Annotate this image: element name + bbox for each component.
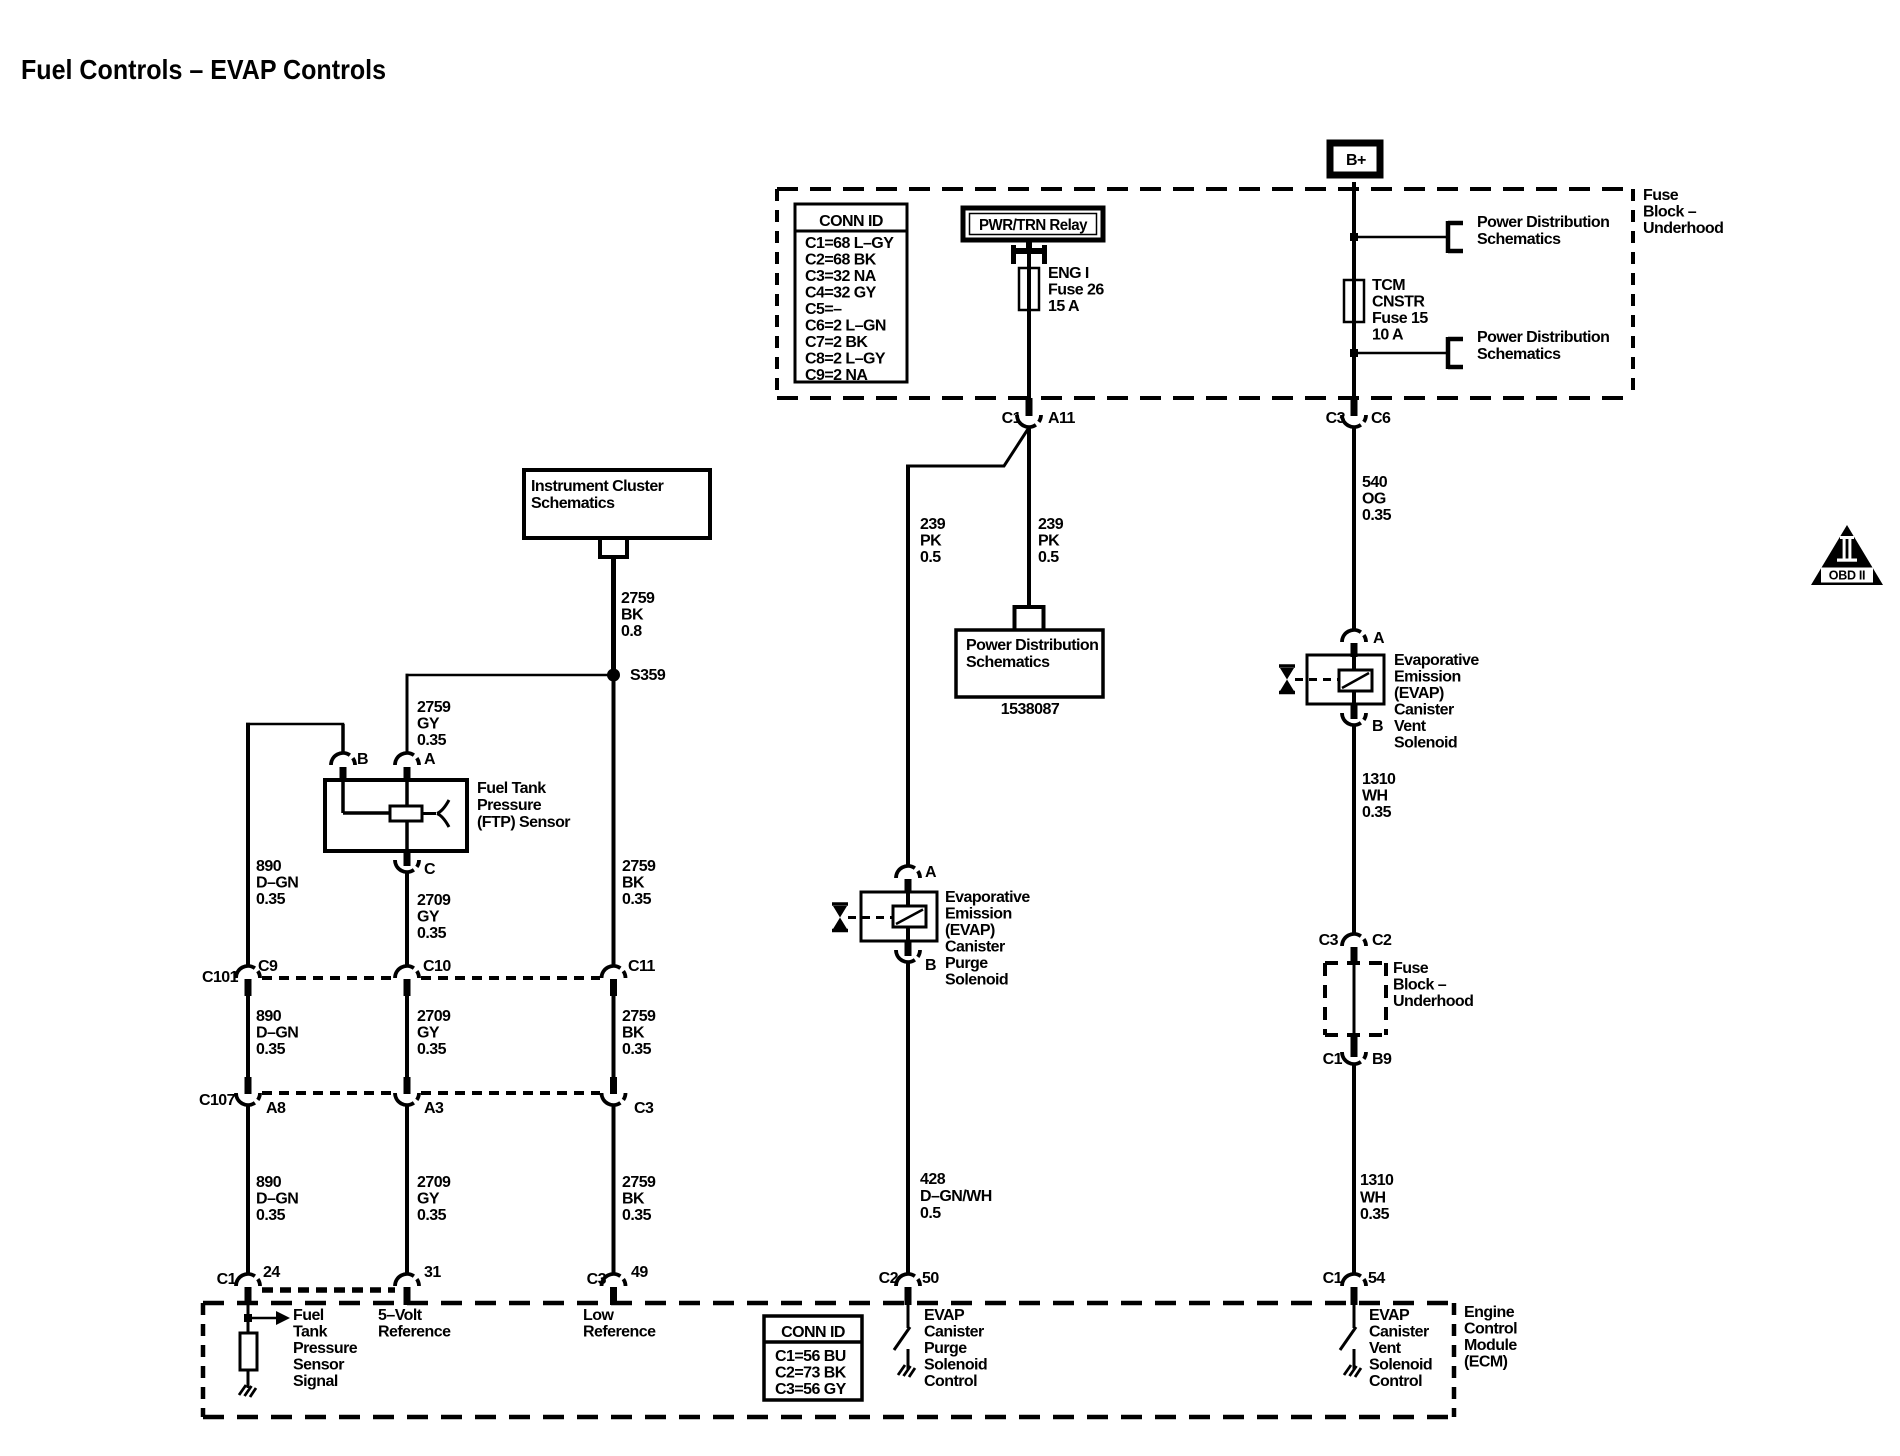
wire label 1310 WH 0.35 (upper) [1362,771,1396,821]
wire label 2759 BK 0.35 (bottom) [622,1174,656,1224]
svg-text:Solenoid: Solenoid [924,1357,987,1374]
svg-text:C10: C10 [423,958,451,975]
wire 2709 GY 0.35 (top) [417,892,451,942]
svg-text:0.5: 0.5 [920,1205,941,1222]
wire S359 to C11 [612,675,616,966]
wire A11 to PDS box [1027,427,1031,607]
wire C3 to ECM 49 [612,1105,616,1274]
wire A3 to ECM 31 [405,1105,409,1274]
svg-text:0.35: 0.35 [1362,804,1392,821]
svg-text:C6=2 L–GN: C6=2 L–GN [805,318,886,335]
connector C1/A11 [1002,398,1076,427]
svg-text:BK: BK [622,1191,645,1208]
wire to power distribution tab 2 [1354,352,1446,355]
svg-text:D–GN: D–GN [256,1025,298,1042]
svg-text:C2: C2 [1372,932,1392,949]
connector C3/C6 [1326,398,1391,427]
svg-text:Block –: Block – [1393,977,1447,994]
svg-text:31: 31 [424,1264,441,1281]
ECM pull resistor [240,1333,257,1388]
svg-text:Sensor: Sensor [293,1357,344,1374]
svg-text:0.35: 0.35 [622,1207,652,1224]
svg-text:D–GN: D–GN [256,875,298,892]
svg-text:C6: C6 [1371,410,1391,427]
svg-text:Schematics: Schematics [1477,346,1561,363]
svg-text:WH: WH [1360,1190,1386,1207]
svg-text:540: 540 [1362,474,1388,491]
svg-text:Fuel: Fuel [293,1307,324,1324]
wire C11 to C3 [612,996,616,1078]
svg-text:Schematics: Schematics [1477,231,1561,248]
svg-text:2759: 2759 [622,858,656,875]
svg-text:A11: A11 [1048,410,1075,427]
svg-text:C1=68 L–GY: C1=68 L–GY [805,235,894,252]
svg-text:0.8: 0.8 [621,623,642,640]
fuel tank pressure sensor signal label [293,1307,358,1390]
svg-text:Canister: Canister [945,939,1005,956]
wire label 428 D-GN/WH 0.5 [920,1171,992,1222]
svg-text:890: 890 [256,858,282,875]
svg-text:BK: BK [622,1025,645,1042]
svg-text:TCM: TCM [1372,277,1405,294]
fuse TCM label [1372,277,1428,344]
wire 890 D-GN vertical to C9 [246,723,250,966]
svg-text:0.35: 0.35 [1360,1206,1390,1223]
svg-text:0.5: 0.5 [920,549,941,566]
connector pin A (FTP) [395,751,436,781]
EVAP canister purge solenoid: pin A [896,864,937,893]
svg-text:WH: WH [1362,788,1388,805]
wire label 2709 GY 0.35 (bottom) [417,1174,451,1224]
wire purge B to C2/50 [906,962,910,1274]
connector C101 pin C10 [395,958,451,996]
svg-text:0.35: 0.35 [256,1207,286,1224]
svg-text:C1=56 BU: C1=56 BU [775,1348,846,1365]
svg-text:C101: C101 [202,969,239,986]
svg-text:BK: BK [622,875,645,892]
wire label 540 OG 0.35 [1362,474,1392,524]
connector C2 pin 50 [879,1270,940,1305]
svg-text:Block –: Block – [1643,204,1697,221]
wire label 1310 WH 0.35 (lower) [1360,1172,1394,1223]
wire 890 D-GN 0.35 (top) [256,858,298,908]
svg-text:Canister: Canister [1369,1324,1429,1341]
wire vent B to C3/C2 [1352,725,1356,934]
svg-text:S359: S359 [630,667,666,684]
svg-text:0.35: 0.35 [417,1041,447,1058]
svg-text:GY: GY [417,716,440,733]
svg-text:49: 49 [631,1264,648,1281]
power distribution tab 1 [1448,221,1463,253]
wire FTP C to C10 [405,872,409,966]
wire to power distribution tab 1 [1354,236,1446,239]
svg-text:Solenoid: Solenoid [1369,1357,1432,1374]
svg-text:Tank: Tank [293,1324,328,1341]
wire through fuse block [1353,965,1356,1037]
svg-text:2759: 2759 [622,1008,656,1025]
wire horizontal to FTP B [246,723,344,726]
PDS box entry bracket [1015,607,1044,630]
svg-text:5–Volt: 5–Volt [378,1307,423,1324]
svg-text:GY: GY [417,909,440,926]
svg-text:C3: C3 [1319,932,1339,949]
svg-text:Instrument Cluster: Instrument Cluster [531,478,664,495]
connector row C107: dashed line [262,1091,600,1095]
svg-text:Solenoid: Solenoid [1394,735,1457,752]
svg-text:0.35: 0.35 [622,1041,652,1058]
svg-text:15 A: 15 A [1048,298,1080,315]
svg-text:Schematics: Schematics [531,495,615,512]
ECM vent driver [1340,1305,1361,1377]
svg-text:C3=56 GY: C3=56 GY [775,1381,847,1398]
svg-text:CONN ID: CONN ID [819,213,883,230]
svg-text:(EVAP): (EVAP) [1394,685,1444,702]
splice S359 [607,669,620,682]
svg-text:Control: Control [1464,1321,1517,1338]
power distribution tab 2 [1448,337,1463,369]
svg-text:0.35: 0.35 [417,925,447,942]
wire label 2759 BK 0.8 [621,590,655,640]
svg-text:A3: A3 [424,1100,444,1117]
svg-text:Engine: Engine [1464,1304,1515,1321]
svg-text:Fuse: Fuse [1643,187,1679,204]
wire 2759 BK 0.8 [611,557,616,675]
OBD II symbol [1811,525,1883,585]
EVAP canister vent solenoid: pin A [1342,630,1385,657]
svg-text:EVAP: EVAP [924,1307,965,1324]
svg-text:C1: C1 [1323,1051,1343,1068]
wire label 2759 GY 0.35 [417,699,451,749]
svg-text:ENG I: ENG I [1048,265,1089,282]
engine control module label [1464,1304,1517,1371]
B+ terminal [1330,143,1380,175]
wire label 890 D-GN 0.35 (bottom) [256,1174,298,1224]
connector pin B (FTP) [331,751,368,781]
wire label 2709 GY 0.35 (mid) [417,1008,451,1058]
ECM signal ground [239,1385,256,1397]
svg-text:Purge: Purge [924,1340,967,1357]
svg-text:Control: Control [1369,1373,1422,1390]
connector C1 pin 24 [217,1264,281,1305]
svg-text:Fuse: Fuse [1393,960,1429,977]
svg-text:C2=68 BK: C2=68 BK [805,252,877,269]
svg-text:Power Distribution: Power Distribution [1477,214,1609,231]
svg-text:2759: 2759 [621,590,655,607]
fuse block underhood dashed box [777,189,1633,398]
svg-text:0.5: 0.5 [1038,549,1059,566]
svg-text:C107: C107 [199,1092,236,1109]
wire label 239 PK 0.5 (right) [1038,516,1064,566]
svg-text:0.35: 0.35 [256,1041,286,1058]
svg-text:239: 239 [1038,516,1064,533]
fuel tank pressure (FTP) sensor [325,780,467,851]
svg-text:Signal: Signal [293,1373,338,1390]
wire C9 to A8 [246,996,250,1078]
svg-text:Pressure: Pressure [293,1340,358,1357]
connector C1 pin 31 [395,1264,441,1305]
svg-text:Vent: Vent [1394,718,1427,735]
fuse block small label [1393,960,1473,1010]
connector C1 pin 54 [1323,1270,1386,1305]
svg-text:Emission: Emission [945,906,1012,923]
wire TCM fuse down [1352,322,1356,400]
purge solenoid label [945,889,1030,989]
connector C107 pin A3 [395,1077,444,1117]
svg-text:(ECM): (ECM) [1464,1354,1508,1371]
svg-text:2709: 2709 [417,1174,451,1191]
power distribution schematics label 2 [1477,329,1609,363]
connector pin C (FTP) [395,851,436,878]
ECM FTP signal wire and junction [244,1305,252,1333]
svg-text:C3=32 NA: C3=32 NA [805,268,877,285]
svg-text:(EVAP): (EVAP) [945,922,995,939]
svg-text:OBD II: OBD II [1829,569,1865,583]
fuse block underhood label [1643,187,1723,237]
ECM dashed box [203,1303,1454,1417]
svg-text:Fuse 26: Fuse 26 [1048,282,1104,299]
connector C101 pin C11 [602,958,656,996]
CONN ID table (ECM) [764,1316,862,1400]
svg-text:1310: 1310 [1362,771,1396,788]
svg-text:239: 239 [920,516,946,533]
svg-text:EVAP: EVAP [1369,1307,1410,1324]
PWR/TRN Relay [963,208,1103,240]
FTP signal arrow [252,1311,290,1325]
svg-text:C3: C3 [1326,410,1346,427]
svg-text:B: B [1372,718,1383,735]
power distribution schematics label 1 [1477,214,1609,248]
power distribution schematics box [956,630,1103,697]
junction J1 [1350,233,1358,241]
svg-text:Fuse 15: Fuse 15 [1372,310,1428,327]
svg-text:2709: 2709 [417,892,451,909]
svg-text:Purge: Purge [945,955,988,972]
CONN ID table (fuse block) [795,204,907,384]
svg-text:890: 890 [256,1174,282,1191]
svg-text:C7=2 BK: C7=2 BK [805,334,868,351]
svg-text:2709: 2709 [417,1008,451,1025]
svg-text:C9: C9 [258,958,278,975]
svg-text:Module: Module [1464,1337,1517,1354]
svg-text:Canister: Canister [1394,702,1454,719]
svg-text:50: 50 [922,1270,939,1287]
svg-text:PWR/TRN Relay: PWR/TRN Relay [979,217,1088,234]
svg-text:Vent: Vent [1369,1340,1402,1357]
svg-text:A: A [1373,630,1385,647]
svg-text:Emission: Emission [1394,669,1461,686]
svg-text:C2: C2 [879,1270,899,1287]
wire B+ feed [1352,182,1356,280]
svg-text:GY: GY [417,1191,440,1208]
svg-text:1310: 1310 [1360,1172,1394,1189]
svg-text:428: 428 [920,1171,946,1188]
vent solenoid label [1394,652,1479,752]
svg-text:A8: A8 [266,1100,286,1117]
svg-text:C4=32 GY: C4=32 GY [805,285,877,302]
wire S359 horizontal branch [406,674,614,677]
svg-text:0.35: 0.35 [1362,507,1392,524]
svg-text:(FTP) Sensor: (FTP) Sensor [477,814,570,831]
svg-text:C1: C1 [217,1271,237,1288]
wire 2759 GY down to FTP pin A [406,674,409,753]
connector C101 pin C9 [202,958,278,996]
svg-text:C9=2 NA: C9=2 NA [805,367,868,384]
svg-text:Reference: Reference [378,1324,451,1341]
svg-text:0.35: 0.35 [417,732,447,749]
svg-text:Reference: Reference [583,1324,656,1341]
svg-text:D–GN: D–GN [256,1191,298,1208]
connector C3 pin 49 [587,1264,649,1305]
svg-text:B9: B9 [1372,1051,1392,1068]
fuse ENG I Fuse 26 15 A [1019,268,1039,310]
wire A8 to ECM 24 [246,1105,250,1274]
svg-text:Power Distribution: Power Distribution [966,637,1098,654]
fuse ENG I label [1048,265,1104,315]
svg-text:D–GN/WH: D–GN/WH [920,1188,992,1205]
svg-text:C1: C1 [1002,410,1022,427]
svg-text:Control: Control [924,1373,977,1390]
purge solenoid valve symbol [832,904,893,931]
svg-text:C3: C3 [587,1271,607,1288]
wire down to FTP pin B [341,724,345,753]
svg-text:B+: B+ [1346,152,1366,169]
wire label 890 D-GN 0.35 (mid) [256,1008,298,1058]
svg-text:10 A: 10 A [1372,327,1404,344]
svg-text:B: B [925,957,936,974]
svg-text:A: A [424,751,436,768]
EVAP canister purge solenoid control label [924,1307,987,1390]
svg-text:Evaporative: Evaporative [945,889,1030,906]
svg-text:A: A [925,864,937,881]
wire 239 PK down to purge solenoid A [906,465,910,867]
svg-text:GY: GY [417,1025,440,1042]
svg-text:0.35: 0.35 [417,1207,447,1224]
svg-text:Low: Low [583,1307,614,1324]
EVAP canister vent solenoid [1307,655,1384,704]
vent solenoid valve symbol [1279,666,1339,693]
svg-text:C1: C1 [1323,1270,1343,1287]
wire label 2759 BK 0.35 (mid) [622,1008,656,1058]
low reference label [583,1307,656,1341]
svg-text:C5=–: C5=– [805,301,842,318]
svg-text:Underhood: Underhood [1393,993,1473,1010]
svg-text:Fuel Controls – EVAP Controls: Fuel Controls – EVAP Controls [21,54,386,85]
svg-text:OG: OG [1362,491,1386,508]
wire C3/C6 to vent solenoid [1352,427,1356,631]
svg-text:Schematics: Schematics [966,654,1050,671]
svg-text:0.35: 0.35 [622,891,652,908]
svg-text:C2=73 BK: C2=73 BK [775,1365,847,1382]
fuse block underhood small dashed box [1325,963,1386,1035]
svg-text:B: B [357,751,368,768]
svg-text:C8=2 L–GY: C8=2 L–GY [805,351,886,368]
junction J2 [1350,349,1358,357]
svg-text:Evaporative: Evaporative [1394,652,1479,669]
fuse TCM CNSTR Fuse 15 10 A [1344,280,1364,322]
svg-text:54: 54 [1368,1270,1385,1287]
svg-text:2759: 2759 [622,1174,656,1191]
svg-text:CONN ID: CONN ID [781,1324,845,1341]
connector C1/B9 [1323,1037,1392,1068]
svg-text:Solenoid: Solenoid [945,972,1008,989]
ECM connector C1 dashed link [262,1287,395,1293]
EVAP canister vent solenoid control label [1369,1307,1432,1390]
instrument cluster exit bracket [600,540,627,557]
wire relay to fuse [1027,254,1031,268]
svg-text:CNSTR: CNSTR [1372,294,1425,311]
svg-text:Underhood: Underhood [1643,220,1723,237]
wire C10 to A3 [405,996,409,1078]
svg-text:C11: C11 [628,958,655,975]
connector C3/C2 [1319,932,1392,965]
wire label 239 PK 0.5 (left) [920,516,946,566]
EVAP canister purge solenoid [861,892,937,941]
wire B9 to C1/54 [1352,1064,1356,1274]
wire 2759 BK 0.35 (top) [622,858,656,908]
svg-text:BK: BK [621,607,644,624]
svg-text:24: 24 [263,1264,280,1281]
ECM purge driver [894,1305,915,1377]
connector C107 pin C3 [602,1077,655,1117]
svg-text:PK: PK [1038,533,1060,550]
svg-text:1538087: 1538087 [1001,701,1060,718]
wire fuse to connector C1/A11 [1027,310,1031,400]
instrument cluster schematics box [524,470,710,538]
svg-text:Canister: Canister [924,1324,984,1341]
connector row C101: dashed line [262,976,600,980]
svg-text:C3: C3 [634,1100,654,1117]
svg-text:0.35: 0.35 [256,891,286,908]
wire branch from A11 (diagonal + horizontal) [906,429,1028,466]
relay terminal [1014,242,1045,264]
5-volt reference label [378,1307,451,1341]
svg-text:Pressure: Pressure [477,797,542,814]
svg-text:Fuel Tank: Fuel Tank [477,780,546,797]
svg-text:C: C [424,861,436,878]
EVAP canister vent solenoid: pin B [1342,704,1383,735]
EVAP canister purge solenoid: pin B [896,941,936,974]
svg-text:890: 890 [256,1008,282,1025]
svg-text:Power Distribution: Power Distribution [1477,329,1609,346]
fuel tank pressure sensor label [477,780,570,831]
connector C107 pin A8 [199,1077,286,1117]
svg-text:2759: 2759 [417,699,451,716]
svg-text:PK: PK [920,533,942,550]
